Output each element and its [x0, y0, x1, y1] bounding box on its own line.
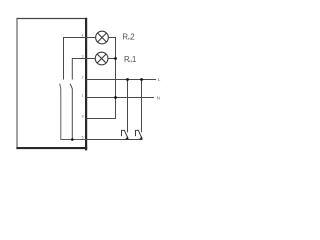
wire: lamp2 feed from switch S2	[72, 59, 95, 80]
svg-text:RH1: RH1	[124, 55, 136, 64]
svg-text:2: 2	[82, 75, 84, 79]
svg-text:5: 5	[82, 135, 84, 139]
junction dot N line	[114, 96, 117, 99]
junction dot L to T1	[126, 78, 129, 81]
svg-text:L: L	[158, 77, 161, 83]
junction dot S2 lower on return line	[71, 138, 74, 141]
wire: lamp2 right side to junction	[108, 58, 116, 60]
switch S2 contact blade and lower wire	[70, 84, 72, 140]
lamp E2 (circle with X)	[96, 31, 109, 44]
device box U1 (electronic switch insert)	[16, 18, 87, 151]
push-button T2	[136, 130, 143, 139]
wire: lamp1 right side to N drop	[108, 38, 115, 59]
svg-text:8: 8	[82, 114, 84, 118]
svg-text:4: 4	[82, 33, 84, 37]
switch S1 contact blade and lower wire	[60, 84, 86, 140]
svg-text:3: 3	[82, 54, 84, 58]
wire: drop from L to push-button T1	[127, 80, 129, 133]
push-button T1	[122, 130, 129, 139]
wire: lamp1 feed from switch S1	[64, 38, 96, 80]
junction dot L to T2	[140, 78, 143, 81]
svg-text:1: 1	[82, 93, 84, 97]
lamp E1 (circle with X)	[95, 52, 108, 65]
junction dot lamp2/N drop	[114, 57, 117, 60]
wire: L supply line	[86, 79, 156, 81]
wire: N drop vertical down to box neutral terminal	[86, 59, 116, 119]
svg-text:RH2: RH2	[122, 33, 134, 42]
wire: drop from L to push-button T2	[141, 80, 143, 133]
wire: push-button return line	[86, 139, 142, 141]
wire: N supply line	[86, 97, 154, 99]
svg-text:N: N	[157, 95, 161, 101]
